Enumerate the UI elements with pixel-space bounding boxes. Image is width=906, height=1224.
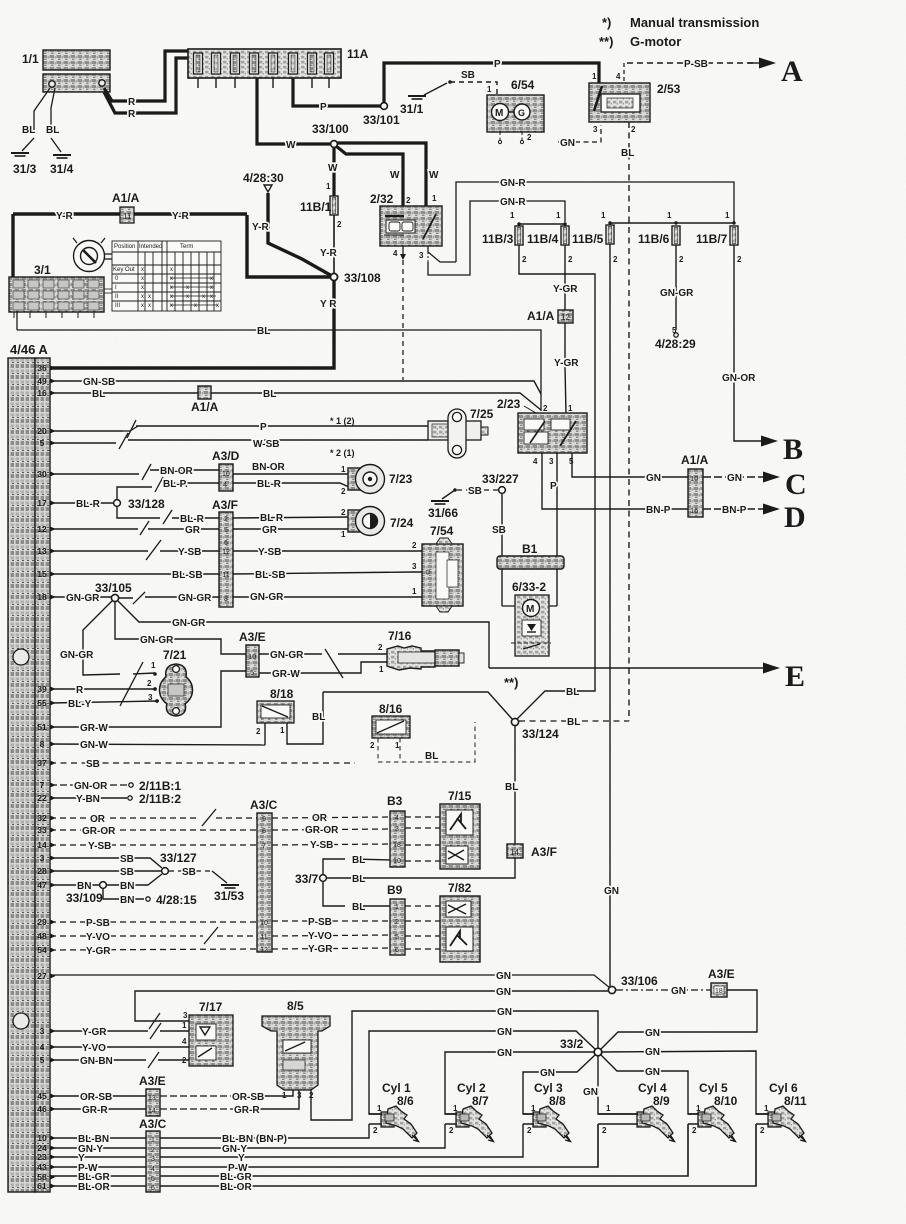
wire SB row pin 13 to 33/127 [50, 854, 162, 868]
wire GN-OR to 2/11B:1 [50, 779, 181, 793]
connector rail B1 [497, 542, 564, 569]
wire BL from 33/7 to B9 pin 1 [323, 882, 390, 913]
connector A1/A (12) [527, 309, 573, 323]
wire GR row [50, 521, 349, 536]
valve 7/25 [428, 407, 494, 458]
wire SB from 33/227 to B1 [492, 494, 506, 606]
wire P from 11A to junction 33/101 [293, 78, 383, 113]
wire BL-OR rail [50, 1124, 756, 1193]
wire BL-BN rail [50, 1124, 369, 1145]
wire P-SB dashed 2/53 pin 4 [623, 63, 625, 83]
power stage 8/5 [262, 999, 330, 1100]
connector A3/E 18 [708, 967, 735, 997]
junction 33/108 [330, 271, 381, 285]
wire 2/23 pin 5 to arrow C (GN) [572, 453, 688, 484]
wire Y-VO dashed row [50, 927, 390, 944]
junction 33/105 [95, 581, 132, 602]
junction 33/100 [312, 122, 349, 147]
connector A3/E left [239, 630, 266, 677]
wire to arrow E [489, 660, 805, 693]
wire 2/32 pin 3 to GN-R [428, 246, 456, 262]
connector A3/D [212, 449, 240, 491]
injector Cyl 3 (8/8) [523, 1081, 571, 1142]
fuse bus 11B/3-11B/4 [510, 211, 567, 226]
fuse 11B/6 [638, 226, 684, 264]
motor 6/54 [487, 78, 544, 132]
wire GR-W from A3/E to 7/16 pin 1 [259, 662, 387, 680]
relay 2/32 [370, 192, 442, 260]
wire Y-R from 4/28:30 to 33/108 [252, 193, 332, 276]
junction 33/127 [160, 851, 197, 874]
relay 2/53 [589, 72, 681, 134]
wire R (lower) from 1/1 to 11A [104, 58, 189, 120]
connector A3/F column [212, 498, 238, 607]
wire P-SB dashed to arrow A [627, 59, 757, 70]
junction 33/128 [114, 497, 165, 511]
connector A3/F 14 [507, 844, 557, 859]
wire GN-R lower to 11B/4 [428, 197, 565, 275]
battery 1/1 [22, 50, 110, 92]
arrow B [761, 433, 803, 466]
wire 2/32 pin 4 dashed to GN-SB [400, 246, 406, 380]
connector A3/C bottom [139, 1117, 167, 1192]
ground 31/66 [428, 501, 458, 520]
connector A3/E bottom [139, 1074, 166, 1116]
wire BN from 33/109 up to 33/127 [107, 874, 162, 892]
wire BL from 8/18 riser to 33/124 [323, 675, 518, 720]
wire GN dashed to 2/53 pin 3 [558, 125, 601, 149]
wire GN-GR from A3/E to 7/16 pin 2 [259, 643, 387, 678]
wire BL from 1/1 to ground 31/3 [22, 88, 50, 151]
relay 7/17 [189, 1000, 233, 1066]
wire P-W rail [50, 1124, 598, 1174]
wire GN from 11B/5 down to 33/106 [604, 244, 619, 988]
wire GN-GR from 33/105 to A3/F pin 8 and 7/54 pin 1 [119, 587, 422, 604]
idle valve 7/21 [153, 648, 192, 716]
junction 33/227 [482, 472, 519, 493]
connector A1/A mid [191, 386, 219, 414]
injector Cyl 1 (8/6) [369, 1081, 419, 1142]
injector Cyl 4 (8/9) [598, 1081, 675, 1142]
wire GN pin 27 to 33/106 [50, 971, 610, 988]
wire GN-W row to 8/18 pin 2 [50, 740, 265, 751]
note manual transmission [599, 15, 759, 49]
ground 31/53 [214, 885, 244, 903]
wire BL-P / BL-R row [117, 477, 349, 500]
switch 8/16 [370, 702, 410, 750]
wire BL dashed from 2/53 pin 2 down [621, 122, 634, 721]
junction 33/101 [363, 103, 400, 127]
wire BL dashed under 8/16 [378, 722, 475, 762]
wire Y-R from 33/108 down to 4/46 pin 36 [50, 280, 337, 368]
wire BL-R from 33/128 to A3/F pin 2 [117, 507, 349, 525]
wire GN-BN row to 7/17 pin 2 [50, 1052, 189, 1068]
wire GN 33/2 to Cyl 2 pin 1 [445, 1048, 594, 1114]
wire Y-GR dashed row [50, 944, 390, 957]
sensor 7/24 [341, 507, 414, 540]
wire OR dashed row [50, 809, 390, 826]
fuse 11B/1 [300, 196, 342, 229]
wire Y rail [50, 1124, 523, 1164]
wire W from 33/100 to 2/32 pin 1 [337, 143, 439, 206]
resistor pack 7/54 [422, 524, 463, 612]
wire BL from 11B/3 to 33/124 [517, 245, 595, 719]
wire GN loop from A3/E 18 to 33/2 [601, 990, 757, 1049]
wire P from 33/101 up to 2/53 pin 1 [384, 59, 599, 103]
wire Y-BN to 2/11B:2 [50, 792, 181, 806]
wire SB dashed from 33/227 to ground 31/66 [442, 486, 498, 499]
wire GN-GR from 11B/6 to 4/28:29 [660, 245, 694, 330]
wire GN-GR from 33/105 diagonal to E line [118, 601, 489, 668]
6/54 pin stubs [498, 132, 532, 144]
key switch symbol [73, 238, 112, 272]
wire W-SB row to 7/25 [50, 433, 428, 458]
wire BL from 33/124 down to A3/F 14 [505, 726, 518, 844]
wire BL from A3/F 14 to 33/7 [327, 858, 515, 885]
wire BN from 33/109 to 4/28:15 [103, 889, 197, 907]
wire GN-R upper from 2/32 pin 3 to 11B/7 [456, 178, 734, 262]
3/1 bottom pin stubs [14, 312, 94, 318]
sensor 7/23 [341, 465, 413, 497]
junction 33/7 [295, 872, 326, 886]
wire W from 33/100 to 2/32 pin 2 [336, 146, 403, 206]
4/46 pin numbers [37, 363, 47, 1191]
wire 2/23 pin 4 to arrow D (BN-P) [542, 453, 688, 516]
wire BL from 33/7 to B3 pin 10 [323, 855, 390, 874]
wire BL from 1/1 to ground 31/4 [46, 88, 61, 152]
wire Y-GR from A1/A 12 to 2/23 pin 1 [554, 323, 579, 414]
wire W from 11A to junction 33/100 [257, 78, 330, 151]
connector hole upper [13, 649, 29, 665]
wire R row to 7/21 pin 2 [50, 679, 157, 696]
wire SB dashed from 31/1 to 6/54 [448, 70, 497, 95]
arrow A [748, 55, 803, 88]
fuse 11B/3 [482, 226, 527, 264]
wire GR-R row to 8/5 pin 3 [50, 1090, 299, 1116]
junction 33/124 [511, 718, 559, 741]
wire Y-R from A1/A to 33/108 [247, 215, 330, 277]
fuse box 11A [188, 47, 369, 78]
ground 31/4 [50, 155, 74, 176]
wire Y-GR from 11B/4 to A1/A pin 12 [553, 245, 578, 310]
relay 7/15 [440, 789, 480, 869]
wire P-SB dashed row [50, 917, 390, 929]
wire BL upper from 3/1 to 2/23 pin 2 [17, 312, 541, 411]
wire BN-P to arrow D [703, 501, 806, 534]
connector hole lower [13, 1013, 29, 1029]
wire GR-W row to A3/E pin 5 [50, 671, 246, 734]
wire P from 2/23 pin 3 to 6/33-2 [550, 453, 557, 606]
fuse 11B/5 [572, 225, 618, 264]
wire GN-GR row pin 18 [50, 593, 111, 604]
fuse 11B/7 [696, 226, 742, 264]
dashes B3 to 7/15 [405, 817, 440, 861]
wire GN from 8/5 pin 2 to 33/2 [311, 1007, 598, 1120]
wire Y-R left with inline connector A1/A [13, 211, 247, 278]
injector valve 7/16 [387, 629, 464, 670]
wire GN dashed from 33/106 to A3/E 18 [616, 986, 711, 997]
wire GN-GR from 33/105 down to A3/E pin 10 [115, 602, 246, 654]
wire BN-OR row [50, 462, 349, 480]
wire Y-SB dashed row [50, 840, 390, 852]
wire R (upper) from 1/1 to 11A [104, 51, 189, 108]
fuse stems 11A [198, 78, 329, 88]
wire W from 33/100 down to fuse 11B/1 [326, 147, 338, 197]
connector 4/28:29 [655, 326, 696, 351]
wire GN-GR from 33/105 to 7/21 pin 1 [60, 601, 156, 706]
wire GN to arrow C [703, 468, 807, 501]
fuse bus 11B/5-11B/7 [601, 211, 736, 225]
ground 31/3 [11, 153, 37, 176]
4/46 pin arrows [50, 365, 56, 1188]
wire GN 33/2 to Cyl 5 pin 1 [601, 1055, 698, 1114]
wire GN 33/2 to Cyl 6 pin 1 [602, 1047, 768, 1114]
junction 33/106 [608, 974, 658, 994]
ground 31/1 [400, 83, 447, 116]
wire SB dashed row pin 37 [50, 759, 355, 770]
wire BL-Y row to 7/21 pin 3 [50, 693, 159, 710]
wire BL-SB row to 7/54 pin 3 [50, 562, 422, 581]
wire GN 33/2 to Cyl 3 pin 1 [523, 1055, 595, 1114]
relay 2/23 [497, 397, 587, 466]
connector A3/C column [250, 798, 278, 954]
wire GR-OR dashed row [50, 825, 390, 837]
injector Cyl 5 (8/10) [688, 1081, 738, 1142]
wire BL dashed from 33/124 to 2/53 BL [519, 717, 629, 728]
wire Y-R from 11B/1 to junction 33/108 [320, 215, 337, 275]
wire Y-SB row to 7/54 pin 2 [50, 540, 422, 560]
connector 4/28:30 [243, 171, 284, 192]
wire GN-OR from 11B/7 to arrow B [722, 245, 762, 441]
ignition switch 3/1 [9, 263, 104, 312]
wire BL-GR rail [50, 1124, 688, 1183]
junction 33/2 [560, 1037, 602, 1056]
connector B9 [387, 883, 405, 955]
wire BL row with connector A1/A [50, 389, 541, 410]
ECU connector 4/46 A [8, 342, 50, 1192]
injector Cyl 2 (8/7) [445, 1081, 494, 1142]
connector A1/A right [681, 453, 709, 517]
relay 7/82 [440, 881, 480, 962]
wire GN-SB row [50, 377, 541, 394]
wire BL-R row (33/128) [50, 499, 113, 510]
injector Cyl 6 (8/11) [756, 1081, 807, 1142]
wire SB dashed from 33/127 to ground 31/53 [169, 867, 227, 883]
connector B3 [387, 794, 405, 867]
wire GN 33/2 to Cyl 1 pin 1 [369, 1027, 595, 1114]
wire P row to 7/25 [50, 416, 428, 438]
switch position table [112, 241, 221, 311]
fuse 11B/4 [527, 226, 573, 264]
wire Y-GR row to 7/17 pin 1 [50, 1021, 189, 1039]
wire OR-SB row to 8/5 pin 1 [50, 1090, 293, 1103]
connector A1/A (11) [112, 191, 140, 223]
starter assembly 6/33-2 [502, 580, 557, 656]
wire SB row pin 28 [50, 867, 161, 878]
relay 8/18 [256, 687, 325, 745]
junction 33/109 [66, 882, 106, 905]
wire GN from 7/17 pin 3 to 33/106 [135, 987, 608, 1029]
wire Y-VO row to 7/17 pin 4 [50, 1037, 189, 1054]
wire BN row pin 47 to 33/109 [50, 881, 99, 892]
wire GN-Y rail [50, 1124, 445, 1155]
wire GN 33/2 to Cyl 4 pin 1 [583, 1056, 637, 1114]
dashes B9 to 7/82 [405, 906, 440, 949]
